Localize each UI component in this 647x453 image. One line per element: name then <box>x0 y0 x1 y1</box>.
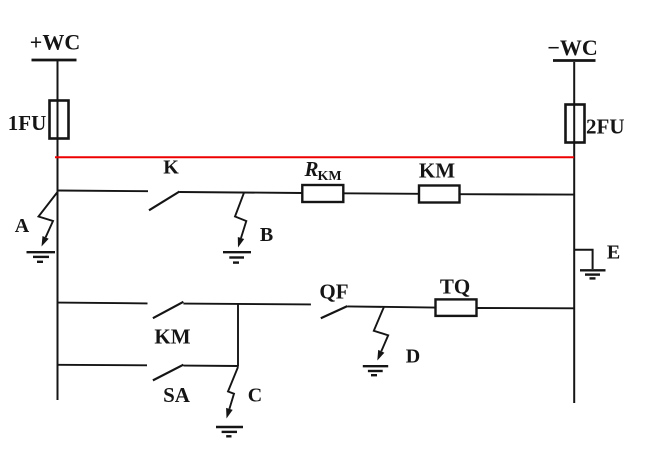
svg-text:C: C <box>248 385 262 407</box>
coil TQ <box>436 275 477 316</box>
svg-text:QF: QF <box>319 280 348 304</box>
svg-text:TQ: TQ <box>440 275 470 299</box>
switch KM <box>153 302 191 349</box>
fault arrow D <box>374 307 420 367</box>
node -WC label <box>547 35 597 60</box>
svg-text:KM: KM <box>318 169 342 184</box>
switch K <box>149 157 180 211</box>
fault arrow B <box>235 193 273 248</box>
bus terminal bar -WC <box>553 59 596 62</box>
wire row2 segment 3 <box>347 306 435 307</box>
svg-text:1FU: 1FU <box>8 111 47 135</box>
fault arrow C <box>226 367 262 419</box>
svg-text:KM: KM <box>419 159 455 183</box>
ground D <box>363 366 388 375</box>
wire row1 segment left <box>58 190 149 193</box>
wire row3 segment left <box>57 364 147 367</box>
svg-text:D: D <box>406 346 420 368</box>
wire row2 segment left <box>57 302 147 305</box>
ground A <box>27 252 56 262</box>
ground B <box>223 252 251 262</box>
switch QF <box>319 280 348 319</box>
wire row1 segment right <box>460 193 575 195</box>
wire row2 segment right <box>477 307 575 309</box>
node +WC label <box>30 30 80 55</box>
ground E with stub <box>574 242 620 279</box>
wire row1 segment 3 <box>343 192 419 195</box>
svg-text:−WC: −WC <box>547 35 597 60</box>
svg-text:K: K <box>163 157 179 179</box>
svg-text:KM: KM <box>154 325 190 349</box>
wire row3 segment 2 <box>183 365 238 367</box>
ground C <box>216 427 243 436</box>
svg-text:E: E <box>607 242 620 264</box>
svg-text:SA: SA <box>163 383 191 407</box>
svg-text:R: R <box>304 157 319 181</box>
wire left bus vertical <box>57 60 59 400</box>
coil KM <box>419 159 460 203</box>
svg-text:+WC: +WC <box>30 30 80 55</box>
fuse 1FU <box>8 101 69 139</box>
fuse 2FU <box>566 105 625 143</box>
wire red highlight line <box>55 156 574 158</box>
svg-text:2FU: 2FU <box>586 115 625 139</box>
wire row1 segment 2 <box>180 192 303 193</box>
switch SA <box>153 365 191 407</box>
fault arrow A <box>15 192 58 247</box>
resistor RKM <box>302 157 343 202</box>
svg-text:A: A <box>15 215 30 237</box>
bus terminal bar +WC <box>32 59 77 62</box>
wire row2 segment 2 <box>183 303 311 306</box>
svg-text:B: B <box>260 224 273 246</box>
wire right bus vertical <box>573 62 575 403</box>
wire branch vertical junction <box>237 304 239 367</box>
